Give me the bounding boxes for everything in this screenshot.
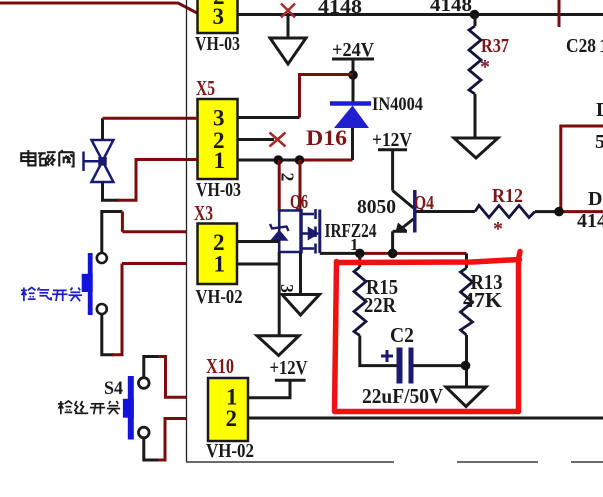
zener on Q6 gate [270,224,289,240]
svg-text:S4: S4 [104,378,123,399]
sheet border vertical [186,0,188,462]
node B [295,155,305,165]
wire Q4 base [417,210,476,213]
svg-text:1: 1 [214,252,226,277]
svg-text:4148: 4148 [430,0,472,16]
svg-text:2: 2 [278,173,298,182]
svg-text:+12V: +12V [270,357,308,379]
svg-text:X10: X10 [206,354,234,378]
svg-text:VH-02: VH-02 [206,440,254,462]
transistor Q4 8050 [393,190,415,253]
node Q4 emitter [388,249,398,259]
node A [274,155,284,165]
power +24V [332,39,375,75]
svg-text:47K: 47K [463,288,503,312]
ground (top rail) [270,15,306,65]
resistor R12 [475,206,535,218]
svg-text:4148: 4148 [318,0,362,18]
diode D16 [330,75,371,160]
switch S4 symbol [123,376,149,440]
label 检丝开关 [58,401,120,414]
svg-text:R37: R37 [481,35,509,57]
ground (R13) [446,387,486,407]
wire switch bottom riser to X3 pin1 [102,264,122,355]
wire Q6 source rail [320,252,362,255]
wire X3 pin1 left maroon [122,262,187,265]
wire maroon riser to Q6 drain [299,160,302,211]
wire top rail [238,13,603,16]
svg-text:VH-02: VH-02 [196,286,243,308]
svg-text:X5: X5 [196,76,215,100]
mosfet Q6 IRFZ24 [279,209,320,254]
wire maroon pin1 to D16 [300,159,353,162]
svg-text:4148: 4148 [577,210,603,232]
wire Q6 source down [299,253,302,295]
svg-text:5: 5 [595,131,603,153]
svg-text:C28: C28 [566,35,596,57]
wire top-left maroon [0,3,198,14]
label 检气开关 [21,287,82,301]
highlight red box [335,252,521,412]
sheet border bottom segments [186,461,603,463]
wire S4 bottom to X10 pin2 [144,419,187,461]
connector X10 (VH-02) [206,378,254,462]
ground (left of Q6 bottom) [257,336,299,356]
wire switch top to X3 pin2 [102,212,123,254]
svg-text:*: * [480,56,490,78]
resistor R13 [461,253,473,386]
wire X5 pin1 right [238,159,300,162]
wire valve top [103,118,198,140]
svg-text:D16: D16 [306,125,347,150]
svg-text:D8: D8 [588,188,603,210]
wire Q6 gate line down [278,252,281,336]
wire valve bottom to X5 pin1 [103,160,198,201]
node +24V/D16 [348,70,358,80]
power +12V (Q4) [372,129,412,191]
svg-text:X3: X3 [194,201,213,225]
wire X3 pin2 right (Q6 gate) [237,240,279,243]
svg-text:IN4004: IN4004 [372,94,423,115]
svg-text:1: 1 [599,35,603,57]
wire X5 pin2 stub [238,138,275,141]
no-connect cross X5 pin2 [270,133,286,147]
wire X5 pin3 right [238,116,300,119]
svg-text:*: * [493,218,503,240]
svg-text:3: 3 [213,106,225,131]
ground (R37) [454,138,498,158]
svg-text:2: 2 [226,406,238,431]
wire maroon riser to Q6 bracket [278,160,281,211]
capacitor C2 [381,348,466,384]
no-ERC cross at top rail [281,4,295,18]
svg-text:3: 3 [213,4,225,29]
ground (Q6 source) [282,295,320,316]
connector X3 (VH-02) [196,224,243,309]
node top rail / R37 [470,10,480,20]
wire X3 pin2 left maroon [122,230,186,233]
svg-text:R12: R12 [492,185,523,207]
svg-text:1: 1 [214,148,226,173]
svg-text:D8: D8 [596,99,603,121]
node R12/D8 [554,207,564,217]
wire S4 top to X10 pin1 [144,357,187,398]
solenoid valve label 电磁阀 [21,150,73,167]
svg-text:8050: 8050 [357,196,396,218]
connector X5 (VH-03) [196,99,241,201]
wire maroon right column [559,126,603,212]
resistor R37 [469,15,481,138]
svg-text:+12V: +12V [372,129,412,151]
svg-text:VH-03: VH-03 [196,179,241,201]
node R15 [355,249,365,259]
wire maroon X5 pin3 riser [300,75,354,118]
wire X10 pin2 rail [248,417,603,420]
switch 检气开关 symbol [82,253,107,315]
svg-text:VH-03: VH-03 [195,33,240,55]
resistor R15 [354,253,397,365]
svg-text:C2: C2 [390,323,414,347]
power +12V (X10) [248,357,308,398]
svg-text:22R: 22R [364,293,397,317]
wire X3 pin1 right [237,263,279,266]
svg-text:22uF/50V: 22uF/50V [362,384,443,408]
wire maroon stub top right [558,0,561,27]
connector X? top (VH-03) [195,0,240,55]
node C2/R13 [461,361,471,371]
valve symbol [84,140,114,182]
